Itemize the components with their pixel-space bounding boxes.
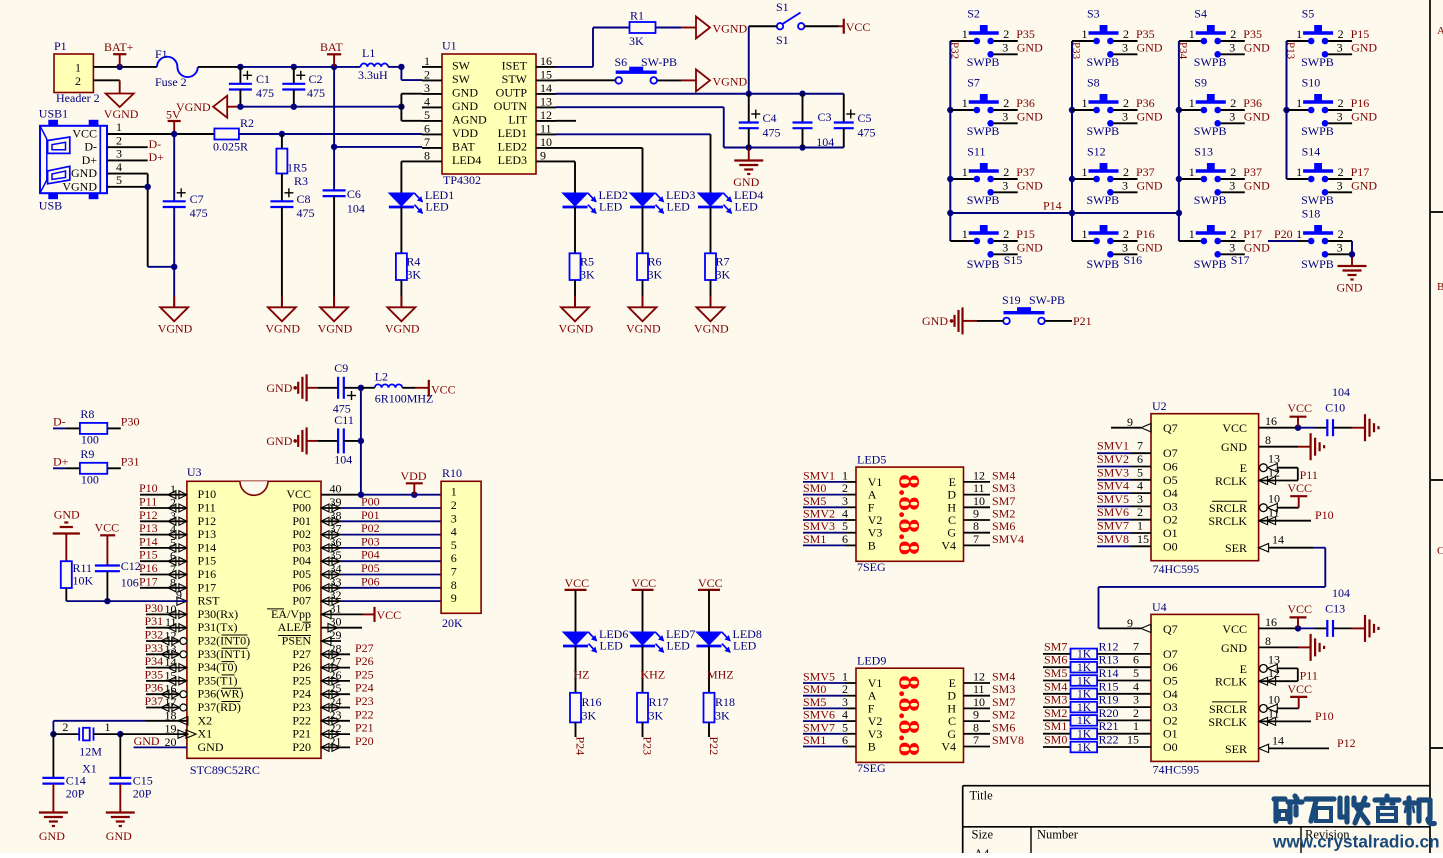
svg-text:2: 2 bbox=[1123, 227, 1129, 241]
svg-text:15: 15 bbox=[165, 668, 177, 682]
svg-text:GND: GND bbox=[1137, 109, 1163, 123]
svg-text:4: 4 bbox=[116, 160, 122, 174]
svg-text:4: 4 bbox=[1133, 679, 1139, 693]
svg-text:P36: P36 bbox=[145, 681, 164, 695]
svg-text:SMV5: SMV5 bbox=[1097, 492, 1129, 506]
svg-text:LED3: LED3 bbox=[498, 153, 527, 167]
svg-text:www.crystalradio.cn: www.crystalradio.cn bbox=[1272, 832, 1440, 852]
svg-text:O7: O7 bbox=[1163, 647, 1178, 661]
svg-text:P34: P34 bbox=[1177, 42, 1189, 60]
svg-text:1K: 1K bbox=[1077, 742, 1092, 754]
svg-text:SM4: SM4 bbox=[1044, 679, 1067, 693]
svg-text:106: 106 bbox=[121, 576, 139, 590]
svg-text:2: 2 bbox=[1230, 96, 1236, 110]
svg-text:VCC: VCC bbox=[1287, 682, 1312, 696]
svg-text:R1: R1 bbox=[630, 9, 644, 23]
svg-text:P16: P16 bbox=[198, 567, 217, 581]
svg-text:P12: P12 bbox=[198, 514, 217, 528]
svg-text:1: 1 bbox=[1189, 96, 1195, 110]
svg-text:C15: C15 bbox=[133, 774, 153, 788]
svg-text:SER: SER bbox=[1225, 541, 1247, 555]
svg-text:SM7: SM7 bbox=[1044, 639, 1067, 653]
svg-text:P26: P26 bbox=[292, 660, 311, 674]
svg-text:GND: GND bbox=[733, 175, 759, 189]
svg-text:O7: O7 bbox=[1163, 446, 1178, 460]
svg-text:15: 15 bbox=[1127, 733, 1139, 747]
svg-text:RST: RST bbox=[198, 594, 221, 608]
svg-text:1: 1 bbox=[1082, 96, 1088, 110]
svg-text:3: 3 bbox=[1229, 240, 1235, 254]
svg-text:VCC: VCC bbox=[1287, 401, 1312, 415]
svg-text:S1: S1 bbox=[776, 33, 789, 47]
svg-text:SM6: SM6 bbox=[1044, 653, 1067, 667]
svg-text:VGND: VGND bbox=[176, 100, 211, 114]
svg-text:LED: LED bbox=[599, 200, 623, 214]
svg-text:5: 5 bbox=[1133, 666, 1139, 680]
svg-text:32: 32 bbox=[330, 588, 342, 602]
svg-text:P04: P04 bbox=[361, 548, 380, 562]
svg-text:4: 4 bbox=[451, 525, 457, 539]
svg-text:1: 1 bbox=[75, 61, 81, 75]
svg-text:21: 21 bbox=[330, 734, 342, 748]
svg-text:3.3uH: 3.3uH bbox=[358, 68, 388, 82]
svg-text:9: 9 bbox=[540, 148, 546, 162]
svg-text:SMV1: SMV1 bbox=[1097, 439, 1129, 453]
svg-text:3: 3 bbox=[1337, 240, 1343, 254]
svg-text:P37: P37 bbox=[1243, 165, 1262, 179]
svg-text:P27: P27 bbox=[355, 641, 374, 655]
svg-text:S13: S13 bbox=[1194, 145, 1213, 159]
svg-text:1: 1 bbox=[170, 482, 176, 496]
svg-text:3K: 3K bbox=[629, 34, 644, 48]
svg-text:14: 14 bbox=[1272, 733, 1284, 747]
svg-text:3: 3 bbox=[424, 81, 430, 95]
svg-text:1: 1 bbox=[1189, 227, 1195, 241]
svg-text:LIT: LIT bbox=[508, 112, 527, 126]
svg-text:GND: GND bbox=[1337, 281, 1363, 295]
svg-text:F1: F1 bbox=[155, 47, 168, 61]
svg-text:SWPB: SWPB bbox=[967, 55, 1000, 69]
svg-text:2: 2 bbox=[1123, 165, 1129, 179]
svg-text:O1: O1 bbox=[1163, 727, 1178, 741]
svg-text:5: 5 bbox=[451, 538, 457, 552]
svg-text:VCC: VCC bbox=[1222, 622, 1247, 636]
svg-text:SRCLR: SRCLR bbox=[1209, 702, 1247, 716]
svg-text:P12: P12 bbox=[139, 508, 158, 522]
svg-text:40: 40 bbox=[330, 482, 342, 496]
svg-text:R17: R17 bbox=[649, 695, 669, 709]
svg-text:R9: R9 bbox=[80, 447, 94, 461]
svg-text:1: 1 bbox=[1189, 165, 1195, 179]
svg-text:14: 14 bbox=[165, 655, 177, 669]
svg-text:GND: GND bbox=[1017, 40, 1043, 54]
svg-text:12: 12 bbox=[165, 629, 177, 643]
svg-text:8: 8 bbox=[1265, 433, 1271, 447]
svg-text:SM1: SM1 bbox=[803, 532, 826, 546]
svg-text:R8: R8 bbox=[80, 407, 94, 421]
svg-text:1K: 1K bbox=[1077, 729, 1092, 741]
svg-text:SM1: SM1 bbox=[1044, 719, 1067, 733]
svg-text:10: 10 bbox=[1268, 692, 1280, 706]
svg-text:P25: P25 bbox=[292, 673, 311, 687]
svg-text:RCLK: RCLK bbox=[1215, 474, 1247, 488]
svg-text:C5: C5 bbox=[857, 111, 871, 125]
svg-text:OUTP: OUTP bbox=[496, 85, 528, 99]
svg-text:3: 3 bbox=[1002, 109, 1008, 123]
svg-text:SM2: SM2 bbox=[1044, 706, 1067, 720]
svg-text:2: 2 bbox=[424, 67, 430, 81]
svg-text:12: 12 bbox=[1268, 466, 1280, 480]
svg-text:3K: 3K bbox=[649, 709, 664, 723]
svg-text:1: 1 bbox=[1137, 519, 1143, 533]
svg-text:S2: S2 bbox=[967, 7, 980, 21]
svg-text:1K: 1K bbox=[1077, 675, 1092, 687]
svg-text:36: 36 bbox=[330, 535, 342, 549]
svg-text:16: 16 bbox=[165, 682, 177, 696]
svg-text:B: B bbox=[1437, 281, 1443, 293]
svg-text:P23: P23 bbox=[640, 737, 654, 756]
svg-text:VGND: VGND bbox=[62, 179, 97, 193]
svg-text:3: 3 bbox=[1229, 40, 1235, 54]
svg-text:GND: GND bbox=[1244, 109, 1270, 123]
svg-text:P14: P14 bbox=[1043, 199, 1062, 213]
svg-text:U4: U4 bbox=[1152, 600, 1167, 614]
svg-text:2: 2 bbox=[451, 498, 457, 512]
svg-text:R19: R19 bbox=[1099, 693, 1119, 707]
svg-text:BAT+: BAT+ bbox=[104, 40, 134, 54]
svg-text:GND: GND bbox=[922, 314, 948, 328]
svg-text:S19: S19 bbox=[1002, 293, 1021, 307]
svg-text:P25: P25 bbox=[355, 667, 374, 681]
svg-text:GND: GND bbox=[1137, 40, 1163, 54]
svg-text:3: 3 bbox=[1229, 109, 1235, 123]
svg-text:1: 1 bbox=[1296, 27, 1302, 41]
svg-text:12M: 12M bbox=[79, 745, 102, 759]
svg-text:39: 39 bbox=[330, 495, 342, 509]
svg-text:P30: P30 bbox=[121, 414, 140, 428]
svg-text:3K: 3K bbox=[715, 709, 730, 723]
svg-text:GND: GND bbox=[1244, 240, 1270, 254]
svg-text:6: 6 bbox=[1133, 653, 1139, 667]
svg-text:GND: GND bbox=[1017, 109, 1043, 123]
svg-text:V4: V4 bbox=[941, 538, 956, 552]
svg-text:6: 6 bbox=[170, 549, 176, 563]
svg-text:O1: O1 bbox=[1163, 526, 1178, 540]
svg-text:P23: P23 bbox=[355, 694, 374, 708]
svg-text:P23: P23 bbox=[292, 700, 311, 714]
svg-text:0.025R: 0.025R bbox=[213, 140, 248, 154]
svg-text:P35: P35 bbox=[1016, 27, 1035, 41]
svg-text:3: 3 bbox=[1337, 40, 1343, 54]
svg-text:S14: S14 bbox=[1302, 145, 1321, 159]
svg-text:Fuse 2: Fuse 2 bbox=[155, 75, 187, 89]
svg-text:Size: Size bbox=[972, 828, 994, 842]
svg-text:P20: P20 bbox=[1274, 227, 1293, 241]
svg-text:VGND: VGND bbox=[713, 74, 748, 88]
svg-text:3: 3 bbox=[1122, 240, 1128, 254]
svg-text:2: 2 bbox=[1230, 227, 1236, 241]
svg-text:2: 2 bbox=[116, 133, 122, 147]
svg-text:R10: R10 bbox=[442, 466, 462, 480]
svg-text:SWPB: SWPB bbox=[1301, 124, 1334, 138]
svg-text:7SEG: 7SEG bbox=[857, 560, 886, 574]
svg-text:LED: LED bbox=[667, 200, 691, 214]
svg-text:S10: S10 bbox=[1302, 76, 1321, 90]
svg-text:7: 7 bbox=[424, 135, 430, 149]
svg-text:23: 23 bbox=[330, 708, 342, 722]
svg-text:OUTN: OUTN bbox=[494, 99, 528, 113]
svg-text:3: 3 bbox=[1229, 178, 1235, 192]
svg-text:C9: C9 bbox=[334, 361, 348, 375]
svg-text:P05: P05 bbox=[361, 561, 380, 575]
svg-text:GND: GND bbox=[1351, 178, 1377, 192]
svg-text:1: 1 bbox=[116, 120, 122, 134]
svg-text:GND: GND bbox=[1017, 178, 1043, 192]
svg-text:2: 2 bbox=[1338, 227, 1344, 241]
svg-text:D+: D+ bbox=[82, 153, 98, 167]
svg-text:P16: P16 bbox=[1351, 96, 1370, 110]
svg-text:O3: O3 bbox=[1163, 700, 1178, 714]
svg-text:1K: 1K bbox=[1077, 715, 1092, 727]
svg-text:1: 1 bbox=[1082, 165, 1088, 179]
svg-text:1: 1 bbox=[451, 485, 457, 499]
svg-text:P10: P10 bbox=[139, 481, 158, 495]
svg-text:P31: P31 bbox=[145, 614, 164, 628]
svg-text:AGND: AGND bbox=[452, 112, 487, 126]
svg-text:13: 13 bbox=[540, 94, 552, 108]
svg-text:20: 20 bbox=[165, 735, 177, 749]
svg-text:C10: C10 bbox=[1325, 401, 1345, 415]
svg-text:1K: 1K bbox=[1077, 702, 1092, 714]
svg-text:1: 1 bbox=[1133, 719, 1139, 733]
svg-text:GND: GND bbox=[1351, 109, 1377, 123]
svg-text:LED: LED bbox=[735, 200, 759, 214]
svg-text:LED5: LED5 bbox=[857, 453, 886, 467]
svg-text:SWPB: SWPB bbox=[1194, 193, 1227, 207]
svg-text:1: 1 bbox=[105, 720, 111, 734]
svg-text:3: 3 bbox=[1133, 693, 1139, 707]
svg-text:GND: GND bbox=[452, 85, 478, 99]
svg-text:SRCLK: SRCLK bbox=[1208, 715, 1247, 729]
svg-text:1: 1 bbox=[962, 165, 968, 179]
svg-text:C14: C14 bbox=[66, 774, 86, 788]
svg-text:P27: P27 bbox=[292, 647, 311, 661]
svg-text:1: 1 bbox=[1189, 27, 1195, 41]
svg-text:Header 2: Header 2 bbox=[56, 91, 100, 105]
svg-text:16: 16 bbox=[540, 54, 552, 68]
svg-text:P21: P21 bbox=[1073, 314, 1092, 328]
svg-text:Q7: Q7 bbox=[1163, 421, 1178, 435]
svg-text:GND: GND bbox=[452, 99, 478, 113]
svg-text:A4: A4 bbox=[974, 847, 990, 853]
svg-text:GND: GND bbox=[266, 434, 292, 448]
svg-text:P32: P32 bbox=[145, 628, 164, 642]
svg-text:8: 8 bbox=[424, 148, 430, 162]
svg-text:P17: P17 bbox=[1351, 165, 1370, 179]
svg-text:3: 3 bbox=[116, 147, 122, 161]
svg-text:O2: O2 bbox=[1163, 713, 1178, 727]
svg-text:S8: S8 bbox=[1087, 76, 1100, 90]
svg-text:2: 2 bbox=[1338, 165, 1344, 179]
svg-text:GND: GND bbox=[134, 734, 160, 748]
svg-text:20P: 20P bbox=[66, 787, 85, 801]
svg-text:P34: P34 bbox=[145, 654, 164, 668]
svg-text:SWPB: SWPB bbox=[1194, 55, 1227, 69]
svg-text:VGND: VGND bbox=[318, 321, 353, 335]
svg-text:VCC: VCC bbox=[632, 576, 657, 590]
svg-text:2: 2 bbox=[1003, 96, 1009, 110]
svg-text:R22: R22 bbox=[1099, 733, 1119, 747]
svg-text:8: 8 bbox=[451, 578, 457, 592]
svg-text:SWPB: SWPB bbox=[1301, 193, 1334, 207]
svg-text:S5: S5 bbox=[1302, 7, 1315, 21]
svg-text:3: 3 bbox=[1122, 109, 1128, 123]
svg-text:1: 1 bbox=[962, 227, 968, 241]
svg-text:28: 28 bbox=[330, 641, 342, 655]
svg-text:14: 14 bbox=[1272, 533, 1284, 547]
svg-text:11: 11 bbox=[165, 615, 177, 629]
svg-text:D-: D- bbox=[53, 414, 66, 428]
svg-text:P15: P15 bbox=[139, 548, 158, 562]
svg-text:3K: 3K bbox=[648, 268, 663, 282]
svg-text:VGND: VGND bbox=[713, 22, 748, 36]
svg-text:P22: P22 bbox=[355, 707, 374, 721]
svg-text:SWPB: SWPB bbox=[1194, 257, 1227, 271]
svg-text:104: 104 bbox=[816, 135, 834, 149]
svg-text:P36: P36 bbox=[1243, 96, 1262, 110]
svg-text:SWPB: SWPB bbox=[967, 193, 1000, 207]
svg-text:11: 11 bbox=[1268, 506, 1280, 520]
svg-text:STW: STW bbox=[502, 72, 528, 86]
svg-text:1R5: 1R5 bbox=[287, 161, 307, 175]
svg-text:C4: C4 bbox=[762, 111, 776, 125]
svg-text:VCC: VCC bbox=[377, 608, 402, 622]
svg-text:C6: C6 bbox=[347, 187, 361, 201]
svg-text:P06: P06 bbox=[292, 580, 311, 594]
svg-text:VCC: VCC bbox=[72, 127, 97, 141]
svg-text:GND: GND bbox=[1137, 178, 1163, 192]
svg-text:R16: R16 bbox=[582, 695, 602, 709]
svg-text:P13: P13 bbox=[1285, 42, 1297, 60]
svg-text:S6: S6 bbox=[615, 55, 628, 69]
svg-text:475: 475 bbox=[297, 206, 315, 220]
svg-text:SWPB: SWPB bbox=[1087, 193, 1120, 207]
svg-text:BAT: BAT bbox=[320, 40, 343, 54]
svg-text:4: 4 bbox=[1137, 479, 1143, 493]
svg-text:100: 100 bbox=[81, 473, 99, 487]
svg-text:R15: R15 bbox=[1099, 679, 1119, 693]
svg-text:C3: C3 bbox=[818, 110, 832, 124]
svg-text:P13: P13 bbox=[198, 527, 217, 541]
svg-text:7: 7 bbox=[973, 733, 979, 747]
svg-text:6R100MHZ: 6R100MHZ bbox=[375, 392, 434, 406]
svg-text:3: 3 bbox=[1337, 178, 1343, 192]
svg-text:P24: P24 bbox=[573, 737, 587, 756]
svg-text:SWPB: SWPB bbox=[1087, 257, 1120, 271]
svg-text:S11: S11 bbox=[967, 145, 985, 159]
svg-text:1: 1 bbox=[1296, 96, 1302, 110]
svg-text:475: 475 bbox=[256, 86, 274, 100]
svg-text:1K: 1K bbox=[1077, 662, 1092, 674]
svg-text:TP4302: TP4302 bbox=[443, 173, 481, 187]
svg-text:VGND: VGND bbox=[694, 321, 729, 335]
svg-text:2: 2 bbox=[1133, 706, 1139, 720]
svg-text:16: 16 bbox=[1265, 615, 1277, 629]
svg-text:34: 34 bbox=[330, 562, 342, 576]
svg-text:1: 1 bbox=[1296, 227, 1302, 241]
svg-text:35: 35 bbox=[330, 548, 342, 562]
svg-text:P13: P13 bbox=[139, 521, 158, 535]
svg-text:P11: P11 bbox=[198, 501, 216, 515]
svg-text:P34(T0): P34(T0) bbox=[198, 660, 238, 674]
svg-text:P22: P22 bbox=[707, 737, 721, 756]
svg-text:475: 475 bbox=[307, 86, 325, 100]
svg-text:SWPB: SWPB bbox=[1301, 257, 1334, 271]
svg-text:USB1: USB1 bbox=[39, 107, 68, 121]
svg-text:LED1: LED1 bbox=[498, 126, 527, 140]
svg-text:LED2: LED2 bbox=[498, 139, 527, 153]
svg-text:S4: S4 bbox=[1194, 7, 1207, 21]
svg-text:7: 7 bbox=[1137, 439, 1143, 453]
svg-text:P15: P15 bbox=[1351, 27, 1370, 41]
svg-text:SM0: SM0 bbox=[1044, 733, 1067, 747]
svg-text:P00: P00 bbox=[361, 495, 380, 509]
svg-text:7SEG: 7SEG bbox=[857, 761, 886, 775]
svg-text:1: 1 bbox=[962, 96, 968, 110]
svg-text:C1: C1 bbox=[256, 72, 270, 86]
svg-text:P37: P37 bbox=[1016, 165, 1035, 179]
svg-text:5V: 5V bbox=[166, 108, 181, 122]
svg-text:P14: P14 bbox=[198, 540, 217, 554]
svg-text:D-: D- bbox=[84, 140, 97, 154]
svg-text:7: 7 bbox=[1133, 639, 1139, 653]
svg-text:P30(Rx): P30(Rx) bbox=[198, 607, 239, 621]
svg-text:3: 3 bbox=[1122, 178, 1128, 192]
svg-text:SW-PB: SW-PB bbox=[1029, 293, 1065, 307]
svg-text:10: 10 bbox=[1268, 492, 1280, 506]
svg-text:R21: R21 bbox=[1099, 719, 1119, 733]
svg-text:U1: U1 bbox=[442, 39, 457, 53]
svg-text:P17: P17 bbox=[1243, 227, 1262, 241]
svg-text:24: 24 bbox=[330, 695, 342, 709]
svg-text:R2: R2 bbox=[240, 116, 254, 130]
svg-text:4: 4 bbox=[170, 522, 176, 536]
svg-text:P11: P11 bbox=[139, 495, 157, 509]
svg-text:VGND: VGND bbox=[559, 321, 594, 335]
svg-text:475: 475 bbox=[190, 206, 208, 220]
svg-text:3: 3 bbox=[170, 509, 176, 523]
svg-text:P1: P1 bbox=[54, 39, 67, 53]
svg-text:Number: Number bbox=[1037, 828, 1079, 842]
svg-text:3K: 3K bbox=[716, 268, 731, 282]
svg-text:SMV8: SMV8 bbox=[992, 733, 1024, 747]
svg-text:P20: P20 bbox=[292, 740, 311, 754]
svg-text:12: 12 bbox=[1268, 666, 1280, 680]
svg-text:P33: P33 bbox=[1070, 42, 1082, 60]
svg-text:O3: O3 bbox=[1163, 499, 1178, 513]
svg-text:P10: P10 bbox=[1315, 508, 1334, 522]
svg-text:P24: P24 bbox=[292, 687, 311, 701]
svg-text:100: 100 bbox=[81, 433, 99, 447]
svg-text:P26: P26 bbox=[355, 654, 374, 668]
svg-text:GND: GND bbox=[1221, 440, 1247, 454]
svg-text:P36: P36 bbox=[1136, 96, 1155, 110]
svg-text:3: 3 bbox=[451, 511, 457, 525]
svg-text:P31: P31 bbox=[121, 454, 140, 468]
svg-text:RCLK: RCLK bbox=[1215, 675, 1247, 689]
svg-text:P02: P02 bbox=[361, 521, 380, 535]
svg-text:14: 14 bbox=[540, 81, 552, 95]
